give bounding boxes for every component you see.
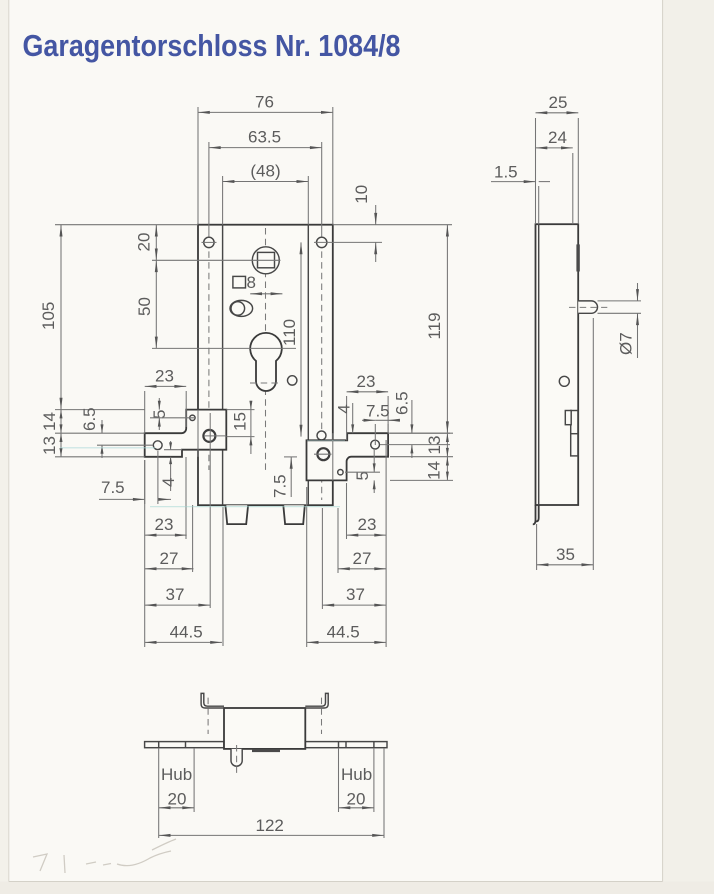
screw hole top right (317, 237, 327, 247)
bottom left chain ext lines (145, 413, 223, 647)
ext side 24 up (572, 153, 574, 224)
dimension 122 (159, 816, 384, 837)
dimension 20 hub right (339, 806, 374, 809)
label 20 right (347, 790, 366, 809)
dimension 7.5 center rotated (271, 457, 298, 498)
dimension 5 left bracket (150, 398, 169, 430)
bar tick right c (373, 742, 375, 748)
dimension (48) (223, 162, 309, 183)
cyan scan line left bracket (60, 447, 155, 449)
dimension 20 left (135, 225, 158, 261)
svg-text:27: 27 (353, 549, 372, 568)
handwriting smudges (33, 839, 176, 873)
side small hole (559, 376, 569, 386)
svg-text:13: 13 (425, 436, 444, 455)
svg-text:14: 14 (424, 461, 443, 480)
left bracket (145, 410, 227, 457)
right bracket bolt hole (314, 448, 332, 460)
dimension 44.5 bottom right (307, 623, 386, 644)
bottom stub centerline (236, 745, 238, 775)
svg-text:63.5: 63.5 (248, 128, 281, 147)
dimension 10 top right (352, 185, 377, 262)
dimension 14 left (40, 410, 63, 434)
tick left screw hole (202, 241, 217, 243)
dimension 23 left bracket (145, 367, 187, 434)
bar tick right a (338, 742, 340, 748)
side latch tab (565, 411, 571, 425)
pin dimension ext lines (598, 301, 642, 313)
dimension 27 bottom left (145, 549, 194, 570)
page margin bottom strip (0, 882, 714, 894)
label Hub right (341, 765, 372, 784)
tab bottom left (225, 505, 248, 524)
dimension 13 right (390, 433, 453, 457)
follower center tick (152, 259, 281, 261)
centerline main axis (265, 228, 267, 473)
bottom bar right (305, 742, 387, 748)
svg-text:24: 24 (548, 128, 567, 147)
svg-text:25: 25 (549, 93, 568, 112)
dimension 13 left (40, 433, 63, 457)
bottom hook right (305, 693, 328, 708)
side latch slot divider (571, 433, 578, 435)
bottom centerline right hook (321, 698, 323, 734)
cylinder stem dash (250, 382, 282, 384)
dimension 76 (198, 93, 333, 114)
bottom right chain ext lines (307, 440, 386, 647)
page edge line right (662, 0, 664, 882)
side foot (533, 505, 539, 524)
right bracket strip hole (371, 440, 380, 449)
side wall inner line (538, 224, 540, 505)
svg-text:119: 119 (425, 312, 444, 339)
dimension 20 hub left (159, 806, 194, 809)
label 20 left (168, 790, 187, 809)
left bracket strip hole (153, 441, 162, 450)
label 8 (247, 273, 256, 292)
dimension 15 (226, 401, 254, 454)
hole below cylinder (288, 376, 297, 385)
follower square hole (258, 252, 275, 267)
centerline right screw axis (321, 230, 323, 500)
svg-text:44.5: 44.5 (170, 623, 203, 642)
bar tick left b (185, 742, 187, 748)
page margin left strip (0, 0, 9, 894)
bottom body (224, 708, 305, 749)
dimension 14 right (390, 457, 453, 481)
side latch slot tall (571, 411, 578, 456)
svg-text:122: 122 (256, 816, 284, 835)
svg-text:6.5: 6.5 (80, 407, 99, 431)
svg-text:8: 8 (247, 273, 256, 292)
ext screw centerline right (314, 241, 382, 243)
svg-text:23: 23 (155, 515, 174, 534)
ext 35 left (536, 524, 538, 570)
svg-text:(48): (48) (250, 162, 280, 181)
dimension 37 bottom left (145, 585, 211, 606)
screw hole top left (204, 237, 214, 247)
ext side inner wall up (538, 186, 540, 224)
svg-text:Hub: Hub (161, 765, 192, 784)
dimension 105 (39, 225, 63, 410)
ext plate top right (333, 224, 452, 226)
pin centerline dashed (569, 306, 607, 308)
hidden plate edge in left bracket (197, 410, 199, 457)
bottom notch dark (252, 749, 280, 752)
hidden plate edge in right bracket (332, 433, 334, 480)
svg-text:76: 76 (255, 93, 274, 112)
bottom stub (231, 749, 242, 766)
euro cylinder hole (250, 333, 282, 391)
dimension 7.5 right (362, 402, 400, 446)
ext side top left up (535, 118, 537, 224)
svg-text:105: 105 (39, 302, 58, 330)
svg-text:35: 35 (556, 545, 575, 564)
svg-text:Hub: Hub (341, 765, 372, 784)
dimension 8 arrows (250, 292, 282, 295)
svg-text:1.5: 1.5 (494, 163, 518, 182)
dimension 6.5 left (80, 407, 104, 458)
cyan scan line right bracket (307, 440, 345, 442)
svg-text:23: 23 (155, 367, 174, 386)
centerline left screw axis (208, 230, 210, 470)
ext strip top left (55, 432, 145, 434)
page margin right strip (663, 0, 714, 894)
svg-text:Garagentorschloss Nr. 1084/8: Garagentorschloss Nr. 1084/8 (23, 29, 401, 63)
dimension 25 (536, 93, 579, 114)
ext bracket top left (55, 409, 145, 411)
dimension 23 bottom left (145, 515, 187, 536)
ext small hole left (150, 417, 195, 419)
right bracket small hole (338, 470, 343, 475)
dimension 37 bottom right (322, 585, 386, 606)
cylinder centerline (152, 347, 296, 349)
case bend line left (222, 225, 224, 506)
dimension 35 (537, 545, 594, 566)
ext screw axes up (209, 142, 322, 230)
svg-text:50: 50 (135, 297, 154, 316)
bottom bar left (145, 742, 224, 748)
svg-text:20: 20 (168, 790, 187, 809)
ext side top right up (577, 118, 579, 224)
dimension 50 left (135, 260, 158, 348)
svg-text:13: 13 (40, 436, 59, 455)
svg-text:37: 37 (346, 585, 365, 604)
ext strip bottom left (55, 456, 145, 458)
dimension 27 bottom right (338, 549, 386, 570)
dimension 110 label (280, 242, 303, 436)
lock plate outline (198, 225, 333, 506)
ext bend lines up (223, 176, 309, 225)
svg-text:23: 23 (358, 515, 377, 534)
svg-text:14: 14 (40, 412, 59, 431)
square symbol 8 (233, 276, 246, 288)
svg-text:15: 15 (230, 412, 249, 431)
ext strip hole centerline left (97, 444, 153, 446)
right bracket (307, 433, 389, 480)
svg-text:7.5: 7.5 (271, 474, 290, 498)
left bracket small hole (190, 415, 195, 420)
ext 35 right from pin (592, 318, 594, 570)
cyan scan line plate bottom (150, 506, 340, 508)
oval slot circle (231, 302, 245, 316)
dimension 24 (536, 128, 573, 149)
dimension 119 (390, 225, 453, 434)
svg-text:110: 110 (280, 319, 299, 346)
dimension 23 bottom right (347, 515, 387, 536)
dimension 23 right bracket (347, 372, 389, 440)
dimension 5 right bracket (345, 450, 380, 493)
svg-text:37: 37 (166, 585, 185, 604)
svg-text:23: 23 (357, 372, 376, 391)
svg-text:6.5: 6.5 (393, 391, 412, 415)
ext plate corners up (198, 107, 333, 225)
follower circle (252, 247, 279, 274)
case bend line right (307, 225, 309, 506)
oval slot (230, 300, 253, 316)
hole above right bracket (317, 431, 326, 440)
bar tick left a (158, 742, 160, 748)
svg-text:20: 20 (347, 790, 366, 809)
hub right ext lines (339, 748, 374, 812)
label Hub left (161, 765, 192, 784)
dimension 4 left (159, 441, 182, 491)
dimension 6.5 right (380, 391, 450, 458)
tab bottom right (283, 505, 305, 524)
page edge line bottom (9, 881, 663, 883)
svg-text:Ø7: Ø7 (616, 332, 635, 355)
dimension 63.5 (209, 128, 322, 149)
left bracket bolt hole (203, 430, 226, 442)
ext plate top left (55, 224, 198, 226)
dimension 1.5 (491, 163, 550, 184)
side latch strike dark strip (576, 244, 579, 271)
svg-text:4: 4 (334, 404, 353, 413)
bar tick right b (345, 742, 347, 748)
ext 122 right (383, 748, 385, 838)
svg-text:7.5: 7.5 (366, 402, 390, 421)
dimension 44.5 bottom left (145, 623, 222, 644)
dimension diameter 7 (616, 283, 639, 358)
svg-text:27: 27 (160, 549, 179, 568)
hub left ext lines (159, 748, 194, 838)
bottom hook left (201, 693, 224, 708)
svg-text:10: 10 (352, 185, 371, 204)
bottom centerline left hook (207, 698, 209, 734)
svg-text:44.5: 44.5 (327, 623, 360, 642)
page edge line left (8, 0, 10, 882)
svg-text:7.5: 7.5 (101, 478, 125, 497)
side body outline (536, 224, 579, 505)
dimension 7.5 left (99, 451, 171, 504)
dimension 4 right (334, 403, 354, 433)
svg-text:20: 20 (135, 233, 154, 252)
side pin (578, 301, 597, 313)
svg-text:4: 4 (159, 478, 178, 487)
